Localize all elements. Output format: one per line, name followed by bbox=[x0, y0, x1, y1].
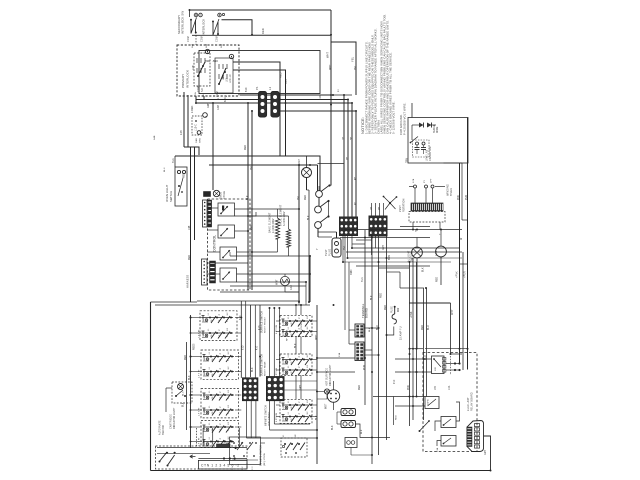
svg-text:INFINITE SWITCH: INFINITE SWITCH bbox=[266, 405, 268, 426]
fuse: 15 amp fuse bbox=[394, 306, 396, 308]
svg-text:81D: 81D bbox=[246, 87, 248, 92]
wire: control internal h3 bbox=[207, 251, 220, 253]
svg-text:1AB: 1AB bbox=[153, 135, 156, 140]
svg-text:3- SERVICER PLEASE RETURN DIAG: 3- SERVICER PLEASE RETURN DIAGRAM TO RAN… bbox=[373, 28, 377, 134]
svg-text:CAB: CAB bbox=[290, 285, 293, 290]
switch: top interlock contact stacks (texture) bbox=[196, 58, 198, 63]
enclosure: alternate switch cluster (dashed) bbox=[156, 446, 248, 469]
svg-text:RED: RED bbox=[280, 72, 283, 78]
wire: bank left rail bbox=[190, 315, 192, 448]
svg-text:YEL: YEL bbox=[344, 245, 346, 250]
svg-text:H2: H2 bbox=[291, 323, 293, 326]
svg-text:P-4 20/208 VOLT WIRE.: P-4 20/208 VOLT WIRE. bbox=[403, 102, 407, 135]
svg-text:14B: 14B bbox=[180, 130, 183, 135]
svg-text:GRN: GRN bbox=[208, 102, 210, 108]
wire: bank rail extra 1 bbox=[245, 301, 247, 378]
lamp: hot surface indicator bbox=[324, 389, 329, 394]
svg-text:GRY: GRY bbox=[300, 384, 302, 390]
svg-text:2B: 2B bbox=[379, 207, 381, 210]
wire: ry3 link bbox=[435, 421, 441, 431]
svg-text:GRY: GRY bbox=[485, 449, 487, 455]
fuse: oven fuse bbox=[280, 276, 289, 285]
wire: cutout drop bbox=[184, 147, 199, 155]
svg-text:CAPACITOR: CAPACITOR bbox=[429, 146, 432, 161]
svg-text:INTERLOCK: INTERLOCK bbox=[202, 19, 206, 35]
svg-text:890 .890: 890 .890 bbox=[205, 59, 218, 63]
resistor: hatched bar element bbox=[217, 444, 231, 448]
wire: control out h5 bbox=[237, 273, 311, 275]
relay: board relay RY4 bbox=[441, 436, 456, 447]
wire: bus line 1b bbox=[331, 94, 352, 96]
wire: control out h2 bbox=[235, 212, 257, 216]
wire: gridL drops bbox=[246, 401, 248, 438]
junction dots alt bbox=[223, 440, 225, 442]
wire: section right rail bbox=[316, 305, 318, 464]
svg-text:2: 2 bbox=[299, 335, 301, 336]
svg-text:COM: COM bbox=[216, 91, 219, 97]
svg-text:2: 2 bbox=[299, 373, 301, 374]
wire: fan-out h5 bbox=[352, 247, 459, 249]
enclosure: right bank box 3 bbox=[280, 399, 312, 423]
wire: light switch feed bbox=[174, 156, 176, 167]
wire: gridR drops bbox=[269, 401, 271, 430]
wire: fan-out h4 bbox=[348, 257, 463, 259]
svg-text:COM: COM bbox=[201, 36, 204, 42]
wire: left feeder A bbox=[183, 92, 185, 147]
marker: arrow bbox=[190, 455, 196, 458]
svg-text:CAB: CAB bbox=[195, 138, 198, 143]
svg-text:ORN: ORN bbox=[351, 269, 353, 275]
wire: bundle v4 bbox=[412, 258, 414, 420]
svg-text:H1: H1 bbox=[220, 444, 222, 447]
svg-text:BLK: BLK bbox=[369, 327, 371, 332]
svg-text:1PY: 1PY bbox=[431, 178, 433, 183]
svg-text:180: 180 bbox=[435, 385, 437, 390]
switch: right bank sw row 1 bbox=[282, 320, 308, 322]
capacitor C2 bbox=[422, 142, 425, 145]
wire: rail 3 bbox=[192, 34, 252, 36]
wire: grid drops long 1 bbox=[364, 230, 366, 405]
wire: AL light leads bbox=[416, 238, 418, 248]
wire: mid rail 2b bbox=[318, 163, 345, 165]
svg-text:+PUR: +PUR bbox=[464, 271, 467, 278]
connector: terminal number strip bbox=[198, 460, 247, 469]
svg-text:CARTRIDGE: CARTRIDGE bbox=[170, 414, 173, 429]
svg-text:WHT: WHT bbox=[316, 334, 318, 340]
connector: control ribbon J1 (outline with pins) bbox=[203, 200, 208, 227]
connector: terminal board ribbon 1 bbox=[355, 324, 364, 337]
svg-text:H1: H1 bbox=[220, 412, 222, 415]
switch: right bank sw row 5 bbox=[282, 404, 308, 406]
wire: bus line 4 bbox=[278, 110, 356, 112]
wire: ry4 link bbox=[437, 441, 441, 447]
svg-text:BLK: BLK bbox=[247, 195, 249, 200]
lamp: oven cycle indicator bbox=[213, 190, 219, 196]
svg-text:NO: NO bbox=[201, 88, 204, 92]
svg-text:SW FOR: SW FOR bbox=[163, 425, 165, 435]
wire: bus line 2 bbox=[196, 99, 348, 101]
wire: top rail bbox=[190, 9, 332, 11]
connector: P3 main harness (pin grid) bbox=[369, 216, 387, 236]
svg-text:COM: COM bbox=[197, 86, 200, 92]
svg-text:+PNK: +PNK bbox=[411, 311, 413, 318]
wire: control out h4 bbox=[237, 251, 253, 253]
wire: contact column horizontals bbox=[318, 236, 332, 238]
wire: long cross h1 bbox=[345, 229, 462, 231]
wire: right rail x310 bbox=[309, 256, 311, 302]
wire: bundle v2 bbox=[386, 236, 388, 440]
connector: pin column bbox=[475, 424, 480, 427]
svg-text:BLK: BLK bbox=[252, 367, 254, 372]
connector: control ribbon J4 (dark) bbox=[210, 261, 216, 283]
svg-text:BLU: BLU bbox=[164, 167, 166, 172]
wire: bundle v5 bbox=[416, 262, 418, 397]
connector: control ribbon J3 (outline with pins) bbox=[202, 259, 208, 285]
wire: plugs feed bbox=[334, 410, 338, 412]
enclosure: primary interlock (dashed) bbox=[177, 45, 239, 96]
connector: small cap on ribbon bbox=[204, 192, 211, 197]
svg-text:RED: RED bbox=[184, 173, 186, 178]
svg-text:H2: H2 bbox=[295, 434, 297, 437]
svg-text:410: 410 bbox=[257, 345, 259, 350]
svg-text:#1FB: #1FB bbox=[428, 399, 430, 405]
wire: diode string bbox=[412, 124, 419, 126]
svg-text:YEL: YEL bbox=[251, 165, 253, 170]
switch: oven light switch (box) bbox=[175, 167, 187, 206]
svg-text:17A: 17A bbox=[412, 178, 415, 183]
wire: bundle drop 4 bbox=[355, 111, 357, 218]
svg-text:13A: 13A bbox=[436, 447, 439, 452]
wire: xlink h390 bbox=[284, 389, 317, 391]
svg-text:WHT: WHT bbox=[326, 51, 330, 58]
junction node A2 bbox=[218, 13, 222, 17]
svg-text:OVEN LIGHT: OVEN LIGHT bbox=[165, 184, 169, 202]
wire: grid1 drops bbox=[342, 236, 344, 263]
svg-text:TIMER: TIMER bbox=[450, 188, 453, 196]
wire: right rail PNK2 bbox=[462, 252, 464, 370]
wire: contact k3 down bbox=[317, 229, 319, 238]
switch: primary interlock contact 2 bbox=[215, 58, 233, 93]
svg-text:L2C-1C: L2C-1C bbox=[229, 74, 232, 83]
enclosure: right bank box 2 bbox=[280, 354, 312, 375]
enclosure: surface switch box 4 (dashed) bbox=[201, 421, 239, 448]
enclosure: right bank box 1 bbox=[280, 315, 312, 336]
wire: bank right rail 41D bbox=[259, 305, 261, 377]
svg-text:GRY: GRY bbox=[383, 244, 385, 250]
wire: fan-out h6 bbox=[346, 251, 462, 253]
wire: bundle v7 bbox=[426, 288, 428, 397]
switch: vent rotary selector bbox=[389, 202, 391, 204]
relay: board relay RY2 bbox=[425, 397, 439, 409]
wire: bundle v1 bbox=[378, 236, 380, 455]
wire: element return h bbox=[230, 255, 310, 257]
svg-text:L-F 6 PT: L-F 6 PT bbox=[199, 437, 201, 446]
svg-text:H2: H2 bbox=[291, 407, 293, 410]
svg-text:BLU: BLU bbox=[428, 325, 430, 330]
svg-text:TERMINAL: TERMINAL bbox=[361, 303, 365, 318]
wire: WHT drop from top rail bbox=[330, 10, 332, 186]
svg-text:H1: H1 bbox=[220, 429, 222, 432]
wire: bundle drop 2 bbox=[347, 100, 349, 219]
lamp: cartridge indicator light bbox=[172, 382, 192, 403]
wire: relay feed 1 bbox=[364, 358, 432, 360]
wire: bus line 1 bbox=[240, 94, 331, 96]
wire: grid drops long 2 bbox=[371, 230, 373, 464]
relay: board relay RY3 bbox=[441, 417, 456, 428]
wire: plug C lead bbox=[350, 448, 352, 456]
svg-text:WHT: WHT bbox=[451, 309, 454, 315]
wire: lamp top stub bbox=[306, 156, 308, 168]
switch: surface unit sw row 3 bbox=[203, 356, 234, 358]
svg-text:RIGHT REAR: RIGHT REAR bbox=[264, 361, 267, 376]
svg-text:+PNK: +PNK bbox=[456, 271, 459, 278]
switch: secondary interlock contact B bbox=[212, 22, 214, 35]
wire: bank right rail mid bbox=[250, 305, 252, 377]
connector: 2-pin plug B bbox=[341, 421, 356, 428]
wire: fan-out h3 bbox=[343, 261, 451, 263]
wire: alt cluster h2 bbox=[157, 452, 210, 454]
relay: control relay 4 bbox=[220, 268, 237, 282]
wire: cross h1b bbox=[400, 226, 430, 228]
connector: control ribbon J2 (dark) bbox=[208, 200, 212, 227]
switch: right bank sw row 6 bbox=[282, 416, 308, 418]
wire: row out stubs bbox=[235, 317, 241, 319]
wire: contact feed 2 bbox=[317, 165, 319, 191]
svg-text:COM: COM bbox=[187, 36, 190, 42]
wire: left feeder B bbox=[187, 95, 189, 147]
relay: control relay 2 bbox=[218, 225, 235, 238]
svg-text:FY: FY bbox=[424, 180, 426, 183]
svg-text:H1: H1 bbox=[220, 359, 222, 362]
svg-text:L-F 6 PT: L-F 6 PT bbox=[199, 369, 201, 378]
wire: rail drop x299 bbox=[298, 165, 300, 302]
wire: contacts down bbox=[318, 198, 320, 207]
enclosure: interlock inner box bbox=[199, 51, 320, 94]
wire: relay feed rows bbox=[364, 354, 379, 356]
svg-text:RED: RED bbox=[305, 195, 307, 200]
svg-text:PNK: PNK bbox=[408, 385, 410, 390]
svg-text:BOARD: BOARD bbox=[365, 308, 369, 318]
wire: element drop 1 bbox=[247, 103, 249, 290]
svg-text:HOT SURFACE: HOT SURFACE bbox=[326, 368, 329, 386]
svg-text:RED5: RED5 bbox=[194, 343, 196, 350]
wire: grid2 drops bbox=[371, 236, 373, 255]
switch: primary interlock contact 1 bbox=[194, 53, 210, 86]
svg-text:ROTATION: ROTATION bbox=[403, 199, 406, 212]
wire: control out h3 bbox=[235, 230, 249, 232]
wire: mid rail 1 bbox=[175, 156, 320, 191]
svg-text:AL LIGHT: AL LIGHT bbox=[408, 250, 411, 262]
connector: P2 main harness (pin grid) bbox=[340, 217, 358, 236]
wire: to harness vertical 2 bbox=[194, 147, 196, 240]
wire: bake element leads bbox=[277, 209, 279, 218]
svg-text:YEL: YEL bbox=[351, 56, 355, 62]
svg-text:RED: RED bbox=[359, 385, 361, 390]
svg-text:RF 1750W: RF 1750W bbox=[287, 329, 289, 341]
wire: tb link 3 bbox=[317, 371, 395, 373]
wire: contact2 to BLK drop bbox=[233, 70, 286, 156]
svg-text:RED: RED bbox=[381, 293, 383, 298]
svg-text:L1: L1 bbox=[283, 407, 285, 409]
wire: timer drops bbox=[412, 222, 414, 230]
wire: bank row stubs bbox=[191, 317, 203, 319]
svg-text:6 PT SW: 6 PT SW bbox=[276, 413, 278, 422]
svg-text:RED: RED bbox=[422, 325, 424, 330]
junction dots at crossings bbox=[189, 9, 191, 11]
switch: surface unit sw row 7 bbox=[203, 426, 234, 428]
wire: hot surface leads bbox=[317, 391, 324, 393]
wire: right rail x306 bbox=[305, 282, 307, 302]
wire: mid rail 2 bbox=[209, 164, 318, 166]
svg-text:SWITCH: SWITCH bbox=[169, 191, 173, 202]
wire: rail 2 from node A2 bbox=[222, 20, 253, 36]
wire: rail drop x213 bbox=[212, 103, 214, 190]
switch: surface unit sw row 5 bbox=[203, 394, 234, 396]
wire: to harness vertical 1 bbox=[190, 147, 192, 302]
svg-text:BLK: BLK bbox=[189, 375, 191, 380]
wire: bundle drop 1 bbox=[343, 95, 345, 218]
wire: control out h1 bbox=[235, 208, 300, 210]
svg-text:P10: P10 bbox=[394, 379, 396, 384]
switch: surface unit sw row 1 bbox=[202, 317, 233, 319]
wire: control out h6 bbox=[237, 281, 307, 283]
svg-text:TRN: TRN bbox=[407, 158, 409, 163]
svg-text:CYCLE: CYCLE bbox=[224, 190, 226, 199]
svg-text:P1: P1 bbox=[255, 86, 259, 90]
wire: element drop 2 bbox=[251, 111, 253, 290]
svg-text:FUSE: FUSE bbox=[390, 306, 393, 313]
svg-text:INDICATOR LIGHT: INDICATOR LIGHT bbox=[329, 364, 332, 386]
svg-text:INDICATOR LIGHT: INDICATOR LIGHT bbox=[173, 407, 176, 429]
svg-text:BLU: BLU bbox=[172, 158, 175, 163]
svg-text:(RF) 1750W: (RF) 1750W bbox=[264, 452, 266, 466]
svg-text:OVEN: OVEN bbox=[221, 192, 223, 199]
relay: control relay 1 bbox=[218, 203, 235, 216]
wire: bundle v3 bbox=[409, 262, 411, 426]
svg-text:PRIMARY: PRIMARY bbox=[181, 74, 185, 88]
svg-text:MW: MW bbox=[398, 307, 400, 312]
svg-text:RED: RED bbox=[261, 28, 265, 34]
svg-text:L1: L1 bbox=[283, 372, 285, 374]
enclosure: line capacitor box bbox=[408, 118, 468, 164]
svg-text:LF 1750W: LF 1750W bbox=[301, 322, 303, 334]
svg-text:5- 120/208 VOLT WIRE.: 5- 120/208 VOLT WIRE. bbox=[391, 101, 395, 134]
svg-text:BLK: BLK bbox=[332, 425, 334, 430]
wire: cartridge leads bbox=[166, 387, 172, 389]
switch: surface unit sw row 2 bbox=[202, 332, 233, 334]
svg-text:H1: H1 bbox=[219, 335, 221, 338]
wire: grid1 drop continues bbox=[348, 262, 350, 344]
junction node A1b bbox=[199, 13, 203, 17]
svg-text:SURGE: SURGE bbox=[434, 124, 436, 133]
connector: striped bar bbox=[467, 427, 472, 447]
switch: surface unit sw row 4 bbox=[203, 371, 234, 373]
wire: tb link 2 bbox=[317, 357, 355, 359]
wire: control out h8 bbox=[230, 285, 306, 287]
wire: alt cluster h1 bbox=[157, 447, 247, 449]
svg-text:61D: 61D bbox=[243, 345, 245, 350]
svg-text:YEL: YEL bbox=[298, 195, 300, 200]
svg-text:1AB: 1AB bbox=[220, 43, 223, 48]
wire: bundle v6 bbox=[400, 288, 424, 420]
svg-text:BLK: BLK bbox=[361, 277, 364, 282]
svg-text:H2: H2 bbox=[291, 419, 293, 422]
svg-text:YEL: YEL bbox=[355, 65, 357, 70]
svg-text:GRN: GRN bbox=[200, 138, 202, 143]
wire: plug A leads bbox=[337, 411, 341, 413]
svg-text:L1: L1 bbox=[283, 334, 285, 336]
wire: transformer leads bbox=[414, 188, 416, 203]
switch: right bank bottom row bbox=[281, 438, 307, 457]
svg-text:HARNESS: HARNESS bbox=[186, 275, 190, 288]
connector: terminal board ribbon 2 bbox=[355, 342, 364, 361]
svg-text:VENT: VENT bbox=[399, 205, 402, 212]
svg-text:H1: H1 bbox=[220, 374, 222, 377]
svg-text:BLK: BLK bbox=[371, 295, 373, 300]
switch: right bank sw row 3 bbox=[282, 359, 308, 361]
junction node B1 bbox=[205, 49, 209, 53]
wire: bank rail extra 2 bbox=[254, 305, 256, 378]
svg-text:LEFT FRONT: LEFT FRONT bbox=[269, 411, 271, 426]
svg-text:BLK: BLK bbox=[295, 343, 297, 348]
wire: bank left rail 2 bbox=[186, 342, 188, 430]
wire: plug B leads bbox=[356, 424, 391, 438]
svg-text:2-4KW 208V: 2-4KW 208V bbox=[272, 218, 275, 233]
svg-text:H1: H1 bbox=[219, 320, 221, 323]
svg-text:1AB: 1AB bbox=[192, 65, 195, 70]
svg-text:2: 2 bbox=[299, 420, 301, 421]
wire: gridR risers bbox=[269, 308, 271, 377]
diode D1 bbox=[419, 123, 424, 128]
wire: fuse leads bbox=[284, 274, 286, 276]
wire: lamp bottom drop bbox=[306, 178, 308, 191]
wire: bottom border bbox=[151, 470, 491, 472]
svg-text:PUR: PUR bbox=[364, 365, 366, 370]
svg-text:L1: L1 bbox=[268, 86, 272, 90]
wire: control out h9 bbox=[220, 291, 299, 293]
wire: lower section top edge 2 bbox=[155, 304, 310, 306]
relay contact K1 bbox=[316, 191, 323, 198]
svg-text:13A: 13A bbox=[448, 385, 451, 390]
wire: contact link bbox=[328, 201, 330, 217]
wire: motor leads bbox=[333, 381, 335, 390]
svg-text:6 PT SW: 6 PT SW bbox=[276, 368, 278, 377]
svg-text:RELAY BOARD: RELAY BOARD bbox=[471, 392, 474, 411]
svg-text:RED: RED bbox=[396, 415, 398, 420]
svg-text:1B: 1B bbox=[371, 207, 373, 210]
switch: surge switch bbox=[411, 137, 419, 143]
relay contact K2 bbox=[315, 206, 322, 213]
svg-text:CAB: CAB bbox=[217, 105, 220, 110]
svg-text:L-F 6 PT: L-F 6 PT bbox=[199, 329, 201, 338]
enclosure: surface switch box 2 (dashed) bbox=[201, 350, 239, 379]
svg-text:3-4KW 208V: 3-4KW 208V bbox=[283, 211, 286, 226]
svg-text:2: 2 bbox=[299, 408, 301, 409]
svg-text:RED: RED bbox=[189, 255, 191, 260]
wire: bundle drop 3 bbox=[351, 103, 353, 218]
svg-text:4B: 4B bbox=[355, 177, 357, 180]
switch: bottom-middle clock cluster bbox=[230, 437, 261, 465]
wire: tb link 1 bbox=[317, 329, 349, 331]
svg-text:L1: L1 bbox=[283, 419, 285, 421]
wire: right rail PUR bbox=[467, 118, 469, 370]
svg-text:FAN: FAN bbox=[435, 251, 438, 256]
wire: fan leads bbox=[440, 230, 442, 247]
svg-text:WHT: WHT bbox=[330, 64, 332, 70]
switch: board switch bbox=[420, 421, 430, 432]
junction node A2b bbox=[222, 13, 224, 15]
svg-text:2: 2 bbox=[299, 324, 301, 325]
